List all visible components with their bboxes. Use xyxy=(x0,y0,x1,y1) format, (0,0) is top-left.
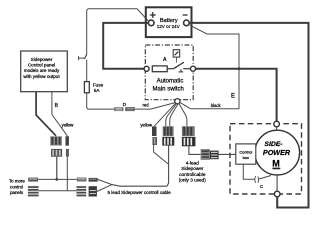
connector 2 plug xyxy=(163,126,174,136)
battery plus terminal xyxy=(148,20,154,26)
wire wide socket down xyxy=(56,157,58,180)
wire cable merge top xyxy=(98,179,112,184)
battery minus terminal xyxy=(184,20,190,26)
main switch right terminal xyxy=(191,66,196,71)
svg-text:box: box xyxy=(243,155,249,160)
svg-text:D: D xyxy=(123,102,127,108)
wire battery plus thin to fuse branch xyxy=(87,9,149,54)
main switch fuse element xyxy=(152,66,167,72)
wire control panel thick cable xyxy=(36,92,56,136)
connector 3 socket xyxy=(182,137,196,146)
wire control box to motor via C xyxy=(243,164,254,179)
wire 5 lead cable xyxy=(112,185,167,187)
connector C symbol xyxy=(255,176,259,183)
svg-text:controllcable: controllcable xyxy=(179,172,206,177)
connector 1 yellow plug xyxy=(152,126,157,136)
connector wide plug under panel xyxy=(50,136,62,145)
svg-text:M: M xyxy=(272,159,280,169)
wire battery minus thin sense xyxy=(190,25,239,109)
battery minus symbol xyxy=(183,14,188,16)
wire connector2 to 5 lead cable xyxy=(167,146,169,187)
connector narrow socket xyxy=(66,149,69,157)
label To more control panels xyxy=(9,179,25,196)
control box xyxy=(236,144,256,164)
svg-text:12V or 24V: 12V or 24V xyxy=(157,24,181,29)
wire fan to yellow connector xyxy=(154,103,175,126)
connector stub top left xyxy=(28,178,38,182)
svg-text:4-lead: 4-lead xyxy=(186,161,199,166)
wire bus bottom xyxy=(39,190,77,192)
motor bottom terminal xyxy=(276,175,278,191)
svg-text:A: A xyxy=(163,57,167,63)
svg-text:Sidepower: Sidepower xyxy=(181,166,204,171)
main switch left terminal xyxy=(144,66,149,71)
connector D left half xyxy=(114,107,123,111)
automatic main switch box U1 xyxy=(145,45,193,100)
svg-text:POWER: POWER xyxy=(263,148,291,157)
svg-text:red: red xyxy=(142,102,149,107)
solenoid inner mark xyxy=(175,52,179,56)
svg-text:(only 3 used): (only 3 used) xyxy=(179,178,207,183)
thruster dashed box xyxy=(230,124,302,194)
fan junction node xyxy=(175,99,180,104)
wire narrow socket down (yellow) xyxy=(66,157,68,191)
control panel box xyxy=(21,51,68,92)
wire C to motor xyxy=(259,176,271,180)
junction dot E wire xyxy=(238,67,241,70)
svg-text:panels: panels xyxy=(10,190,24,195)
wire main switch output thick to motor xyxy=(196,69,277,122)
solenoid link xyxy=(176,57,178,63)
connector wide socket xyxy=(51,149,62,157)
svg-text:E: E xyxy=(231,94,235,100)
connector pair right bottom xyxy=(77,186,97,197)
wire 4 lead connector to control box xyxy=(219,153,236,155)
svg-text:yellow: yellow xyxy=(62,122,75,127)
connector narrow plug xyxy=(66,136,69,145)
wire fan to connector2 pin2 xyxy=(170,104,178,126)
connector 3 plug xyxy=(182,126,195,136)
wire battery minus thick right edge xyxy=(189,23,309,208)
wire fan to black xyxy=(180,102,191,108)
motor top terminal xyxy=(276,127,278,131)
wire connector1 to cable xyxy=(154,145,169,164)
battery plus symbol xyxy=(150,12,156,18)
svg-text:5 lead Sidepower controll cabl: 5 lead Sidepower controll cable xyxy=(108,190,172,195)
svg-text:Automatic: Automatic xyxy=(157,79,184,85)
wire fuse to D connector (red wire) xyxy=(87,93,114,109)
connector block bottom left xyxy=(28,186,39,197)
svg-text:models are ready: models are ready xyxy=(24,68,60,73)
wire fan to connector2 pin1 xyxy=(166,104,177,127)
connector D right half xyxy=(125,107,134,111)
battery B1 xyxy=(146,7,192,37)
connector 2 socket xyxy=(162,137,174,146)
svg-text:Fuse: Fuse xyxy=(93,82,104,87)
main switch contact xyxy=(167,62,190,72)
svg-text:yellow: yellow xyxy=(140,123,153,128)
connector 4-lead left half xyxy=(201,149,210,160)
fuse F1 5A xyxy=(84,82,89,93)
svg-text:To more: To more xyxy=(9,179,25,184)
wire cable merge bottom xyxy=(97,185,112,192)
wire connector3 to 4 lead connector xyxy=(189,146,201,154)
svg-text:Sidepower: Sidepower xyxy=(31,57,53,62)
motor M side-power xyxy=(255,130,300,175)
wire bus top xyxy=(38,178,77,180)
connector 1 socket xyxy=(152,137,157,145)
svg-text:Control panel: Control panel xyxy=(28,63,55,68)
svg-text:Battery: Battery xyxy=(160,18,178,24)
svg-text:Main switch: Main switch xyxy=(153,87,184,93)
svg-text:5A: 5A xyxy=(94,88,101,93)
svg-text:black: black xyxy=(211,103,222,108)
wire battery plus thick to main switch xyxy=(103,23,149,69)
wire control panel yellow xyxy=(52,92,67,136)
wire fan to connector3 xyxy=(179,104,187,127)
label 4-lead cable xyxy=(179,161,207,183)
svg-text:with yellow output: with yellow output xyxy=(23,74,60,79)
svg-text:control: control xyxy=(10,184,23,189)
junction dot bus xyxy=(55,178,58,181)
connector pair right top xyxy=(77,178,98,182)
main switch solenoid box xyxy=(173,50,180,57)
manual switch S1 xyxy=(79,54,87,81)
connector 4-lead right half xyxy=(210,151,219,160)
wire red to fan junction xyxy=(135,103,176,110)
